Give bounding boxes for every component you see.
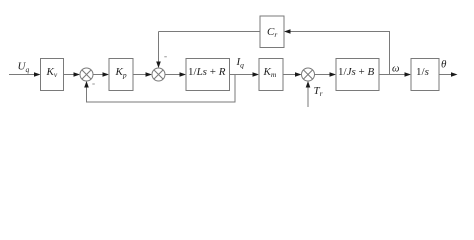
wire speed feedback tap up [389,32,391,75]
svg-text:1/Ls + R: 1/Ls + R [188,66,226,78]
wire Cr output left run [159,31,261,33]
svg-text:θ: θ [441,59,447,71]
wire Kv to summing junction J1 [64,72,81,77]
block 1/(Ls+R) [186,59,230,91]
wire 1/(Js+B) to 1/s [379,72,411,77]
block Cr [260,16,284,48]
wire Km to summing junction J3 [283,72,302,77]
wire current feedback up into J1 [84,81,89,103]
block 1/(Js+B) [336,59,379,91]
summing junction J2 [152,68,165,81]
svg-text:ω: ω [392,64,399,75]
wire speed feedback down into J2 [156,32,161,69]
block Kv [41,59,64,91]
wire J1 to Kp [93,72,109,77]
block 1/s integrator [411,59,439,91]
summing junction J3 [302,68,315,81]
node omega label [392,64,399,75]
svg-text:1/s: 1/s [416,66,429,78]
wire current feedback bottom run [87,101,236,103]
wire Kp to summing junction J2 [133,72,152,77]
summing junction J1 [80,68,93,81]
wire J3 to mechanical block [315,72,337,77]
wire current feedback tap down [234,75,236,103]
block Kp [109,59,133,91]
wire 1/(Ls+R) to Km [230,72,260,77]
node Tr label [314,85,323,98]
wire speed feedback top run into Cr [284,29,390,34]
wire input to Kv [9,72,41,77]
node Iq label [236,56,245,70]
minus sign at J1 feedback input [92,83,95,85]
wire Tr input up into J3 [306,81,311,107]
wire output arrow [439,72,458,77]
block Km [259,59,283,91]
wire J2 to motor electrical block [165,72,186,77]
svg-text:1/Js + B: 1/Js + B [338,66,374,78]
minus sign at J2 feedback input [164,56,167,58]
node theta label [441,59,447,71]
node Uq input label [18,61,30,75]
